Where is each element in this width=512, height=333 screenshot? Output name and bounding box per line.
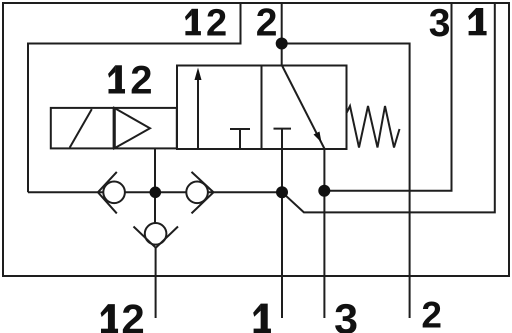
svg-text:2: 2 <box>256 1 278 44</box>
svg-text:3: 3 <box>429 2 451 45</box>
svg-text:2: 2 <box>206 2 227 44</box>
svg-text:3: 3 <box>334 295 358 333</box>
svg-text:2: 2 <box>421 295 442 333</box>
svg-text:2: 2 <box>121 295 144 333</box>
svg-text:2: 2 <box>130 59 152 103</box>
